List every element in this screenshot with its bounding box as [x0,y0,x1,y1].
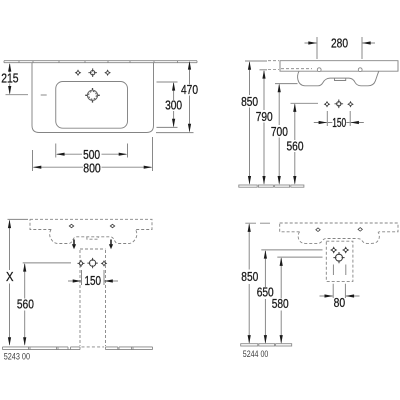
svg-text:500: 500 [83,148,100,162]
svg-text:800: 800 [83,162,101,176]
svg-text:790: 790 [256,110,273,124]
svg-text:560: 560 [17,297,34,311]
svg-text:700: 700 [271,125,288,139]
svg-text:280: 280 [331,36,348,50]
svg-text:215: 215 [1,71,18,85]
svg-text:300: 300 [165,98,182,112]
svg-text:X: X [6,270,14,284]
svg-text:850: 850 [241,270,258,284]
svg-text:470: 470 [181,83,198,97]
svg-text:150: 150 [332,116,346,130]
svg-text:80: 80 [334,296,346,310]
svg-text:5244 00: 5244 00 [243,349,268,359]
svg-text:150: 150 [84,274,101,288]
svg-text:5243 00: 5243 00 [4,351,30,362]
svg-text:850: 850 [241,95,258,109]
svg-text:560: 560 [287,139,304,153]
svg-text:580: 580 [272,297,289,311]
